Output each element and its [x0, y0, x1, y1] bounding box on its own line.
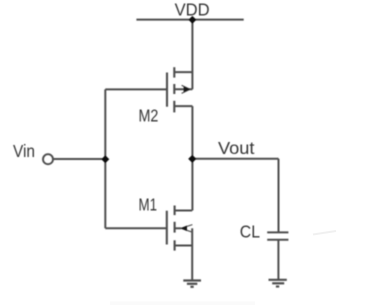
capacitor CL: [267, 232, 288, 239]
wire: Vout down to capacitor CL: [278, 159, 280, 233]
svg-text:M2: M2: [139, 105, 159, 125]
wire: Vout horizontal: [192, 158, 278, 160]
M1 source stub: [175, 245, 193, 247]
svg-text:CL: CL: [240, 221, 260, 241]
wire: input node vertical (gate bus): [104, 89, 106, 228]
M1 bulk arrow (points left, filled head): [181, 225, 193, 233]
wire: CL bottom to ground: [277, 240, 279, 280]
VDD power rail: [136, 19, 243, 21]
M2 bulk stub: [174, 88, 192, 90]
transistor M2 (PMOS): [167, 67, 192, 112]
node: VDD junction: [188, 16, 196, 24]
ground (below M1): [183, 281, 201, 287]
transistor M1 (NMOS): [167, 206, 193, 251]
M1 channel segment (bulk): [174, 222, 176, 233]
M2 drain stub: [174, 105, 192, 107]
M1 channel segment (drain side): [174, 206, 176, 216]
svg-text:VDD: VDD: [175, 0, 210, 19]
svg-text:Vin: Vin: [13, 141, 35, 161]
M1 channel segment (source side): [174, 240, 176, 250]
svg-text:M1: M1: [139, 194, 158, 214]
M2 channel segment (source side): [173, 101, 175, 113]
wire: VDD rail down to M2 source/bulk: [191, 20, 193, 90]
node: input junction: [101, 155, 109, 163]
wire: M1 bulk tie to source: [191, 228, 193, 245]
M1 gate bar: [166, 211, 168, 245]
M2 source stub: [174, 71, 192, 73]
M1 bulk stub: [175, 227, 181, 229]
wire: Vin terminal to input node: [53, 158, 105, 160]
wire: M2 drain to M1 drain (through Vout node): [191, 106, 193, 210]
input terminal (open circle): [43, 154, 53, 164]
svg-text:Vout: Vout: [218, 138, 255, 158]
wire: M1 gate lead: [105, 227, 167, 229]
M2 bulk arrow (points right, filled head): [182, 85, 191, 93]
ground (below CL): [269, 280, 287, 287]
M2 gate bar: [166, 73, 168, 107]
node: Vout junction: [188, 155, 196, 163]
M1 drain stub: [175, 210, 193, 212]
wire: M1 source to ground: [191, 246, 193, 281]
wire: M2 gate lead: [105, 88, 167, 90]
M2 channel segment (bulk): [173, 84, 175, 94]
M2 channel segment (drain side): [173, 67, 175, 77]
